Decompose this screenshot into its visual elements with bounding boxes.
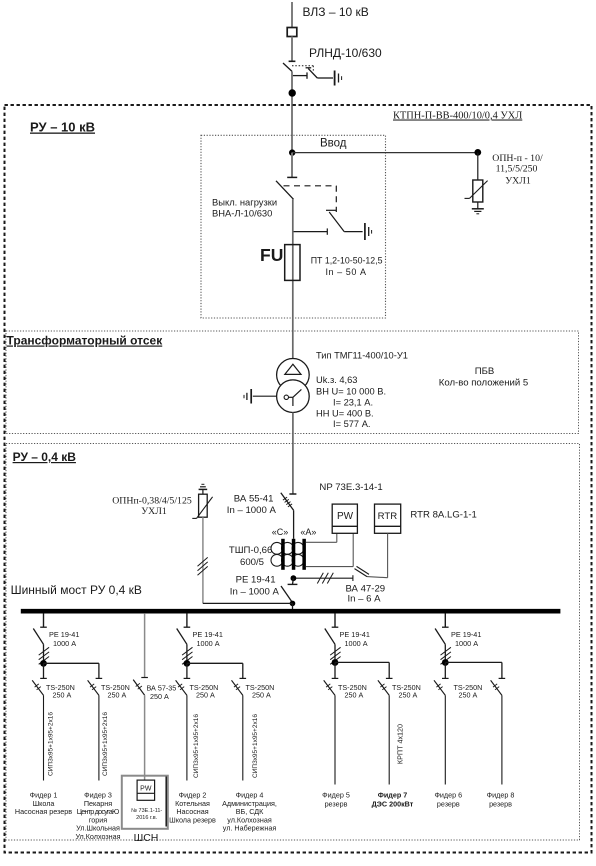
svg-text:250 А: 250 А xyxy=(196,691,215,700)
svg-text:Школа резерв: Школа резерв xyxy=(169,815,216,824)
svg-text:FU: FU xyxy=(260,245,283,265)
wire: group 1 horizontal xyxy=(44,662,99,664)
wire to bus xyxy=(292,603,294,611)
earthing electrode of РЛНД xyxy=(335,71,342,86)
svg-text:резерв: резерв xyxy=(489,800,512,809)
svg-text:ВНА-Л-10/630: ВНА-Л-10/630 xyxy=(212,208,272,219)
ground at ОПН-п xyxy=(472,209,484,214)
svg-text:Uk.з. 4,63: Uk.з. 4,63 xyxy=(316,375,357,385)
node: group 3 junction xyxy=(332,659,339,666)
svg-text:1000 А: 1000 А xyxy=(345,639,368,648)
svg-text:резерв: резерв xyxy=(325,800,348,809)
wire: RTR down to breaker ВА 47-29 xyxy=(367,533,388,577)
svg-text:КРПТ 4х120: КРПТ 4х120 xyxy=(395,724,404,764)
wire down from junction xyxy=(292,578,295,584)
wire: Ввод dot down to load break switch xyxy=(291,153,293,178)
svg-text:ул. Набережная: ул. Набережная xyxy=(223,824,277,833)
transformer ТМГ11-400/10-У1 xyxy=(277,359,310,413)
svg-text:In – 6 А: In – 6 А xyxy=(347,594,381,605)
breaker TS-250N feeder 7 xyxy=(378,678,393,784)
node: junction dot above КТПН box xyxy=(289,89,296,96)
enclosure Ввод dotted box xyxy=(201,135,386,318)
svg-text:RTR: RTR xyxy=(378,511,398,522)
svg-text:2016 г.в.: 2016 г.в. xyxy=(136,815,158,821)
svg-text:НН U= 400 В.: НН U= 400 В. xyxy=(316,409,374,419)
svg-text:СИП3х95+1х95+2х16: СИП3х95+1х95+2х16 xyxy=(252,714,259,778)
svg-text:Кол-во положений 5: Кол-во положений 5 xyxy=(439,377,529,388)
svg-text:ВН U= 10 000 В.: ВН U= 10 000 В. xyxy=(316,387,386,397)
surge arrester ОПН-п-10 xyxy=(465,153,488,209)
svg-text:I= 23,1 А.: I= 23,1 А. xyxy=(333,398,373,408)
circuit breaker ВА 47-29 xyxy=(353,566,369,581)
enclosure Трансформаторный отсек dotted box xyxy=(6,331,579,434)
svg-text:Ввод: Ввод xyxy=(320,138,347,150)
wire: ОПНп down to bus junction xyxy=(202,517,204,603)
svg-text:Фидер 8: Фидер 8 xyxy=(487,791,515,800)
disconnector РЕ 19-41 main xyxy=(281,584,297,602)
svg-text:№ 73Е.1-11-: № 73Е.1-11- xyxy=(131,808,162,814)
meter PW xyxy=(332,504,357,533)
wire: РЛНД to node xyxy=(291,71,293,152)
svg-text:СИП3х95+1х95+2х16: СИП3х95+1х95+2х16 xyxy=(193,714,200,778)
svg-text:СИП3х95+1х95+2х16: СИП3х95+1х95+2х16 xyxy=(48,712,55,776)
panel ШСН box xyxy=(122,776,168,829)
node: group 2 junction xyxy=(184,660,191,667)
wire: group 3 drop xyxy=(334,613,336,627)
svg-text:RTR 8А.LG-1-1: RTR 8А.LG-1-1 xyxy=(410,510,476,521)
svg-text:Тип ТМГ11-400/10-У1: Тип ТМГ11-400/10-У1 xyxy=(316,350,408,360)
circuit breaker ВА 55-41 xyxy=(281,493,297,539)
svg-text:1000 А: 1000 А xyxy=(455,639,478,648)
node: group 1 junction xyxy=(40,660,47,667)
svg-text:ТШП-0,66: ТШП-0,66 xyxy=(229,545,272,556)
svg-text:РЛНД-10/630: РЛНД-10/630 xyxy=(309,46,382,60)
svg-text:резерв: резерв xyxy=(437,800,460,809)
svg-text:600/5: 600/5 xyxy=(240,557,264,568)
svg-text:РЕ 19-41: РЕ 19-41 xyxy=(236,575,276,586)
svg-text:1000 А: 1000 А xyxy=(53,639,76,648)
svg-text:250 А: 250 А xyxy=(108,691,127,700)
wire: line from square to РЛНД xyxy=(291,37,293,61)
node: junction dot at ОПН-п tap xyxy=(474,149,481,156)
wire: transformer neutral to ground xyxy=(253,395,277,397)
disconnector РЕ 19-41 group 4 xyxy=(435,627,449,662)
node: group 4 junction xyxy=(442,659,449,666)
svg-text:11,5/5/250: 11,5/5/250 xyxy=(496,164,538,175)
breaker ВА 57-35 xyxy=(133,678,148,696)
svg-text:Фидер 7: Фидер 7 xyxy=(378,791,408,800)
wire: transformer to 0,4 кВ breaker xyxy=(292,413,294,495)
wire: group 2 horizontal xyxy=(187,662,243,664)
load break switch ВНА-Л-10/630 xyxy=(276,177,363,234)
svg-text:Трансформаторный отсек: Трансформаторный отсек xyxy=(7,334,164,348)
svg-text:Выкл. нагрузки: Выкл. нагрузки xyxy=(212,196,277,207)
svg-text:ПТ 1,2-10-50-12,5: ПТ 1,2-10-50-12,5 xyxy=(311,256,383,266)
breaker TS-250N feeder 4 xyxy=(232,678,247,780)
wire: group 2 drop xyxy=(186,613,188,627)
breaker TS-250N feeder 2 xyxy=(176,678,191,780)
meter PW in ШСН xyxy=(137,780,155,800)
svg-text:250 А: 250 А xyxy=(53,691,72,700)
svg-text:ДЭС 200кВт: ДЭС 200кВт xyxy=(372,800,414,809)
svg-text:1000 А: 1000 А xyxy=(197,639,220,648)
node: junction above РЕ 19-41 xyxy=(291,575,297,581)
wire: incoming overhead line ВЛЗ xyxy=(291,2,293,28)
wire: horizontal to surge arrester ОПН-п xyxy=(292,152,478,154)
wire: group 4 horizontal xyxy=(445,661,502,663)
node: junction dot at Ввод xyxy=(289,149,295,155)
wire: junction to ВА 47-29 with 3-phase marks xyxy=(293,577,353,579)
breaker TS-250N feeder 1 xyxy=(32,678,47,780)
svg-text:ВЛЗ – 10 кВ: ВЛЗ – 10 кВ xyxy=(303,5,369,19)
wire: ШСН drop (grey) xyxy=(144,613,146,677)
disconnector РЕ 19-41 group 1 xyxy=(33,627,47,663)
svg-text:250 А: 250 А xyxy=(459,691,478,700)
wire: CT secondary to PW xyxy=(306,533,353,566)
receiver RTR xyxy=(375,504,401,533)
svg-text:ШСН: ШСН xyxy=(134,832,159,844)
svg-text:I= 577 А.: I= 577 А. xyxy=(333,419,370,429)
svg-text:ОПН-п - 10/: ОПН-п - 10/ xyxy=(492,153,543,164)
svg-text:РУ – 0,4 кВ: РУ – 0,4 кВ xyxy=(13,450,77,464)
svg-text:In – 50 А: In – 50 А xyxy=(326,267,367,277)
wire: group 4 drop xyxy=(444,613,446,627)
svg-text:Шинный мост РУ 0,4 кВ: Шинный мост РУ 0,4 кВ xyxy=(11,583,142,597)
ground at transformer neutral xyxy=(244,389,251,404)
wire: main line through fuse down to transformer xyxy=(292,199,294,358)
node: open point square on incoming line xyxy=(287,28,297,37)
svg-text:ПБВ: ПБВ xyxy=(475,366,495,377)
fuse FU ПТ 1,2-10-50-12,5 xyxy=(285,245,300,281)
svg-text:PW: PW xyxy=(140,786,152,793)
breaker TS-250N feeder 3 xyxy=(88,678,103,780)
wire: ОПНп horizontal to main junction xyxy=(203,602,293,604)
svg-text:РУ – 10 кВ: РУ – 10 кВ xyxy=(30,120,95,135)
svg-text:«А»: «А» xyxy=(300,527,316,537)
svg-text:УХЛ1: УХЛ1 xyxy=(505,176,531,187)
svg-text:250 А: 250 А xyxy=(252,691,271,700)
svg-text:КТПН-П-ВВ-400/10/0,4 УХЛ: КТПН-П-ВВ-400/10/0,4 УХЛ xyxy=(393,111,522,122)
earthing electrode of ВНА xyxy=(365,223,372,240)
svg-text:«С»: «С» xyxy=(272,527,289,537)
breaker TS-250N feeder 5 xyxy=(324,678,339,784)
svg-text:250 А: 250 А xyxy=(150,692,169,701)
svg-text:Ул.Колхозная: Ул.Колхозная xyxy=(75,832,120,841)
breaker feeder 8 xyxy=(491,678,506,784)
disconnector РЛНД-10/630 xyxy=(283,61,333,79)
breaker TS-250N feeder 6 xyxy=(434,678,449,784)
enclosure РУ-0,4 кВ dotted box xyxy=(6,444,580,841)
surge arrester ОПНп-0,38 xyxy=(192,484,212,518)
svg-text:Насосная резерв: Насосная резерв xyxy=(15,807,72,816)
wire: group 1 drop xyxy=(43,613,45,627)
wire: group 3 horizontal xyxy=(335,661,389,663)
bus bar 0,4 кВ xyxy=(21,609,561,614)
svg-text:СИП3х95+1х95+2х16: СИП3х95+1х95+2х16 xyxy=(102,712,109,776)
current transformer ТШП-0,66 600/5 xyxy=(271,542,304,566)
svg-text:NP 73Е.3-14-1: NP 73Е.3-14-1 xyxy=(319,482,382,493)
svg-text:250 А: 250 А xyxy=(345,691,364,700)
node: junction on bus tap xyxy=(290,601,296,607)
svg-text:PW: PW xyxy=(337,511,354,522)
svg-text:ВА 55-41: ВА 55-41 xyxy=(234,493,274,504)
svg-text:In – 1000 А: In – 1000 А xyxy=(230,586,280,597)
svg-text:Фидер 6: Фидер 6 xyxy=(434,791,462,800)
wire: ВА 57-35 to ШСН box (grey) xyxy=(144,695,146,780)
svg-text:In – 1000 А: In – 1000 А xyxy=(227,505,277,516)
svg-text:250 А: 250 А xyxy=(399,691,418,700)
svg-text:УХЛ1: УХЛ1 xyxy=(141,506,167,517)
svg-text:Фидер 5: Фидер 5 xyxy=(322,791,350,800)
disconnector РЕ 19-41 group 2 xyxy=(177,627,191,663)
disconnector РЕ 19-41 group 3 xyxy=(325,627,339,662)
